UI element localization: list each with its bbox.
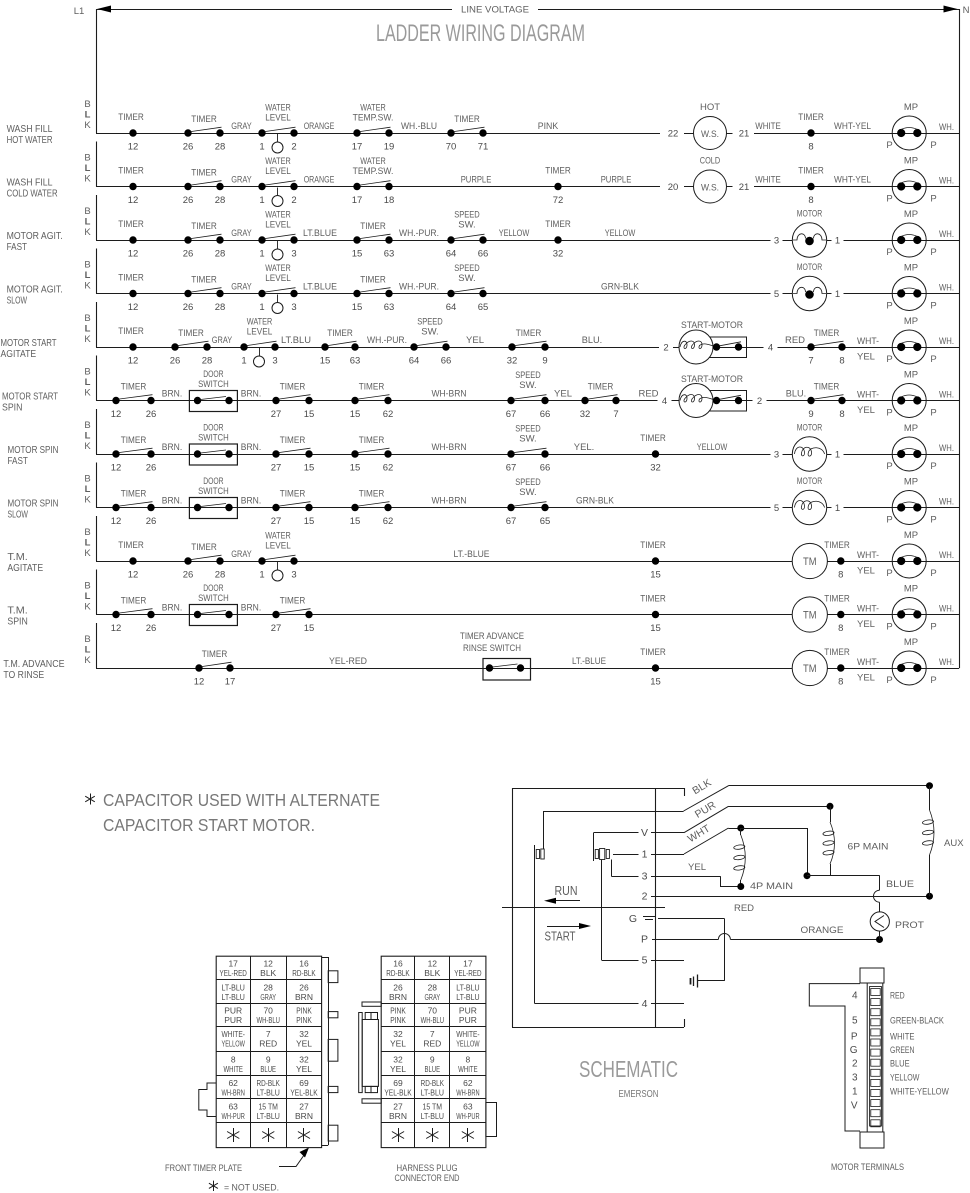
svg-text:W.S.: W.S. bbox=[701, 129, 719, 140]
svg-text:SWITCH: SWITCH bbox=[198, 486, 229, 497]
svg-text:AGITATE: AGITATE bbox=[7, 562, 43, 574]
svg-text:9: 9 bbox=[808, 409, 813, 420]
svg-text:4: 4 bbox=[662, 396, 667, 407]
svg-text:15: 15 bbox=[352, 302, 363, 313]
svg-text:WH-BRN: WH-BRN bbox=[456, 1087, 479, 1097]
svg-text:P: P bbox=[886, 622, 892, 633]
svg-text:63: 63 bbox=[384, 302, 395, 313]
svg-text:LT-BLU: LT-BLU bbox=[257, 1111, 280, 1121]
svg-text:V: V bbox=[641, 827, 648, 839]
svg-text:K: K bbox=[84, 388, 91, 399]
svg-text:G: G bbox=[850, 1045, 858, 1056]
svg-text:TIMER: TIMER bbox=[327, 328, 353, 339]
svg-text:TIMER: TIMER bbox=[545, 166, 571, 177]
svg-text:28: 28 bbox=[215, 195, 226, 206]
svg-text:LEVEL: LEVEL bbox=[247, 327, 273, 338]
svg-text:LT.BLU: LT.BLU bbox=[281, 335, 311, 346]
svg-text:27: 27 bbox=[271, 409, 282, 420]
svg-text:TIMER: TIMER bbox=[814, 382, 840, 393]
svg-text:19: 19 bbox=[384, 142, 395, 153]
svg-text:K: K bbox=[84, 227, 91, 238]
svg-text:12: 12 bbox=[128, 356, 139, 367]
svg-text:YELLOW: YELLOW bbox=[222, 1039, 245, 1049]
svg-text:B: B bbox=[84, 474, 90, 485]
svg-text:1: 1 bbox=[642, 849, 648, 861]
svg-text:TIMER: TIMER bbox=[118, 273, 144, 284]
svg-text:L: L bbox=[85, 377, 91, 388]
svg-text:1: 1 bbox=[835, 289, 840, 300]
svg-text:22: 22 bbox=[668, 129, 679, 140]
svg-text:WH.: WH. bbox=[939, 229, 954, 240]
svg-text:YELLOW: YELLOW bbox=[890, 1073, 919, 1084]
svg-text:17: 17 bbox=[352, 142, 363, 153]
svg-text:WHITE: WHITE bbox=[755, 121, 781, 132]
svg-text:8: 8 bbox=[839, 356, 844, 367]
svg-text:MP: MP bbox=[904, 102, 918, 113]
svg-text:WH.: WH. bbox=[939, 657, 954, 668]
svg-text:12: 12 bbox=[428, 959, 438, 969]
svg-text:3: 3 bbox=[774, 236, 779, 247]
svg-text:15: 15 bbox=[650, 623, 661, 634]
svg-text:TIMER: TIMER bbox=[121, 382, 147, 393]
svg-text:9: 9 bbox=[430, 1054, 435, 1064]
svg-text:WH-BRN: WH-BRN bbox=[222, 1087, 245, 1097]
svg-text:70: 70 bbox=[263, 1006, 273, 1016]
svg-text:WHT-: WHT- bbox=[857, 604, 879, 615]
svg-text:RED: RED bbox=[423, 1039, 441, 1049]
svg-text:PUR: PUR bbox=[459, 1006, 477, 1016]
svg-text:12: 12 bbox=[111, 623, 122, 634]
svg-text:YEL-RED: YEL-RED bbox=[220, 968, 247, 978]
svg-text:TIMER: TIMER bbox=[824, 540, 850, 551]
svg-text:L: L bbox=[85, 324, 91, 335]
svg-text:B: B bbox=[84, 153, 90, 164]
svg-text:26: 26 bbox=[170, 356, 181, 367]
svg-text:8: 8 bbox=[466, 1054, 471, 1064]
svg-text:SW.: SW. bbox=[458, 220, 475, 231]
svg-text:TIMER: TIMER bbox=[191, 168, 217, 179]
svg-text:K: K bbox=[84, 602, 91, 613]
svg-text:TEMP.SW.: TEMP.SW. bbox=[353, 166, 394, 177]
svg-text:L: L bbox=[85, 431, 91, 442]
svg-text:PINK: PINK bbox=[390, 1006, 406, 1016]
svg-text:TIMER: TIMER bbox=[121, 435, 147, 446]
svg-text:WH.: WH. bbox=[939, 122, 954, 133]
svg-text:BLUE: BLUE bbox=[886, 879, 914, 890]
svg-text:15: 15 bbox=[304, 463, 315, 474]
svg-text:WHT-YEL: WHT-YEL bbox=[834, 121, 871, 132]
svg-text:FAST: FAST bbox=[8, 455, 29, 467]
svg-text:SW.: SW. bbox=[421, 327, 438, 338]
svg-text:28: 28 bbox=[215, 302, 226, 313]
svg-text:2: 2 bbox=[291, 195, 296, 206]
svg-text:P: P bbox=[930, 194, 936, 205]
svg-text:7: 7 bbox=[613, 409, 618, 420]
svg-text:BRN: BRN bbox=[295, 992, 313, 1002]
svg-text:LINE VOLTAGE: LINE VOLTAGE bbox=[461, 5, 529, 16]
svg-text:TIMER: TIMER bbox=[118, 112, 144, 123]
svg-text:P: P bbox=[930, 354, 936, 365]
svg-text:62: 62 bbox=[383, 409, 394, 420]
svg-text:2: 2 bbox=[642, 891, 648, 903]
svg-text:P: P bbox=[930, 461, 936, 472]
svg-text:K: K bbox=[84, 281, 91, 292]
svg-text:K: K bbox=[84, 655, 91, 666]
svg-text:LT.-BLUE: LT.-BLUE bbox=[572, 656, 606, 667]
svg-text:EMERSON: EMERSON bbox=[619, 1088, 659, 1100]
svg-text:YEL: YEL bbox=[857, 619, 875, 630]
svg-text:WH.-PUR.: WH.-PUR. bbox=[399, 282, 439, 293]
svg-text:WHITE: WHITE bbox=[223, 1064, 243, 1074]
svg-text:P: P bbox=[930, 568, 936, 579]
svg-text:MP: MP bbox=[904, 156, 918, 167]
svg-text:32: 32 bbox=[553, 249, 564, 260]
svg-text:P: P bbox=[886, 140, 892, 151]
svg-text:P: P bbox=[930, 408, 936, 419]
svg-text:MP: MP bbox=[904, 263, 918, 274]
svg-text:LT-BLU: LT-BLU bbox=[456, 992, 479, 1002]
svg-text:TIMER: TIMER bbox=[640, 594, 666, 605]
svg-text:15: 15 bbox=[650, 677, 661, 688]
svg-text:YEL.: YEL. bbox=[574, 442, 594, 453]
svg-text:LEVEL: LEVEL bbox=[265, 220, 291, 231]
svg-text:15: 15 bbox=[350, 516, 361, 527]
svg-text:WHITE: WHITE bbox=[890, 1032, 915, 1043]
svg-text:TIMER: TIMER bbox=[280, 489, 306, 500]
svg-text:BRN: BRN bbox=[295, 1111, 313, 1121]
svg-text:5: 5 bbox=[852, 1016, 858, 1027]
svg-text:26: 26 bbox=[183, 142, 194, 153]
svg-text:26: 26 bbox=[146, 409, 157, 420]
svg-text:WHITE: WHITE bbox=[458, 1064, 478, 1074]
svg-text:63: 63 bbox=[228, 1101, 238, 1111]
svg-text:17: 17 bbox=[228, 959, 238, 969]
svg-text:MP: MP bbox=[904, 584, 918, 595]
svg-text:B: B bbox=[84, 634, 90, 645]
svg-text:YEL-BLK: YEL-BLK bbox=[290, 1087, 318, 1097]
svg-text:3: 3 bbox=[774, 450, 779, 461]
svg-text:BLU.: BLU. bbox=[582, 335, 602, 346]
svg-text:TIMER: TIMER bbox=[191, 221, 217, 232]
svg-text:71: 71 bbox=[478, 142, 489, 153]
svg-text:3: 3 bbox=[291, 302, 296, 313]
svg-text:15: 15 bbox=[350, 463, 361, 474]
svg-text:BRN.: BRN. bbox=[241, 442, 261, 453]
svg-text:TIMER: TIMER bbox=[191, 542, 217, 553]
svg-text:LADDER WIRING DIAGRAM: LADDER WIRING DIAGRAM bbox=[376, 20, 585, 47]
svg-text:ORANGE: ORANGE bbox=[304, 175, 335, 186]
svg-text:GREEN: GREEN bbox=[890, 1045, 915, 1056]
svg-text:MOTOR: MOTOR bbox=[797, 476, 823, 487]
svg-text:COLD: COLD bbox=[700, 156, 720, 167]
svg-text:RED: RED bbox=[785, 335, 805, 346]
svg-text:WHT-: WHT- bbox=[857, 390, 879, 401]
svg-text:MOTOR TERMINALS: MOTOR TERMINALS bbox=[831, 1162, 904, 1173]
svg-text:BLUE: BLUE bbox=[425, 1064, 441, 1074]
svg-text:12: 12 bbox=[128, 195, 139, 206]
svg-text:TIMER: TIMER bbox=[798, 112, 824, 123]
svg-text:SW.: SW. bbox=[519, 380, 536, 391]
svg-text:15: 15 bbox=[352, 249, 363, 260]
svg-text:2: 2 bbox=[663, 343, 668, 354]
svg-text:BLK: BLK bbox=[424, 968, 440, 978]
svg-text:27: 27 bbox=[271, 516, 282, 527]
svg-text:4: 4 bbox=[852, 991, 858, 1002]
svg-text:WHITE-: WHITE- bbox=[456, 1029, 480, 1039]
svg-text:L: L bbox=[85, 538, 91, 549]
svg-text:TIMER: TIMER bbox=[359, 489, 385, 500]
svg-text:RED: RED bbox=[638, 389, 658, 400]
svg-text:AGITATE: AGITATE bbox=[1, 348, 37, 360]
svg-text:MP: MP bbox=[904, 637, 918, 648]
svg-text:1: 1 bbox=[259, 142, 264, 153]
svg-text:WH.: WH. bbox=[939, 176, 954, 187]
svg-text:P: P bbox=[930, 675, 936, 686]
svg-text:YELLOW: YELLOW bbox=[499, 228, 530, 239]
svg-text:YELLOW: YELLOW bbox=[605, 228, 636, 239]
svg-text:26: 26 bbox=[183, 570, 194, 581]
svg-text:5: 5 bbox=[774, 503, 779, 514]
svg-text:BLUE: BLUE bbox=[260, 1064, 276, 1074]
svg-text:TM: TM bbox=[803, 609, 817, 621]
svg-text:MP: MP bbox=[904, 209, 918, 220]
svg-text:LT-BLU: LT-BLU bbox=[421, 1087, 444, 1097]
svg-text:LT-BLU: LT-BLU bbox=[222, 992, 245, 1002]
svg-text:TIMER: TIMER bbox=[280, 596, 306, 607]
svg-text:69: 69 bbox=[393, 1078, 403, 1088]
svg-text:GRAY: GRAY bbox=[212, 335, 233, 346]
svg-text:P: P bbox=[886, 408, 892, 419]
svg-text:MP: MP bbox=[904, 316, 918, 327]
svg-text:BRN.: BRN. bbox=[162, 389, 182, 400]
svg-text:SLOW: SLOW bbox=[7, 295, 27, 307]
svg-text:TIMER: TIMER bbox=[545, 219, 571, 230]
svg-text:3: 3 bbox=[642, 871, 648, 883]
svg-text:HOT WATER: HOT WATER bbox=[7, 134, 53, 146]
svg-text:SW.: SW. bbox=[519, 487, 536, 498]
svg-text:RD-BLK: RD-BLK bbox=[386, 968, 410, 978]
svg-text:TIMER: TIMER bbox=[824, 594, 850, 605]
svg-text:PUR: PUR bbox=[224, 1006, 242, 1016]
svg-text:P: P bbox=[886, 194, 892, 205]
svg-text:WHT-: WHT- bbox=[857, 657, 879, 668]
svg-text:15 TM: 15 TM bbox=[258, 1101, 278, 1111]
svg-text:COLD WATER: COLD WATER bbox=[7, 188, 58, 200]
svg-text:MP: MP bbox=[904, 370, 918, 381]
svg-text:TIMER: TIMER bbox=[824, 647, 850, 658]
svg-text:TIMER: TIMER bbox=[118, 219, 144, 230]
svg-text:BRN.: BRN. bbox=[162, 603, 182, 614]
svg-text:LT-BLU: LT-BLU bbox=[456, 982, 479, 992]
svg-text:63: 63 bbox=[463, 1101, 473, 1111]
svg-text:2: 2 bbox=[852, 1059, 858, 1070]
svg-text:TIMER: TIMER bbox=[360, 275, 386, 286]
svg-text:WHT-YEL: WHT-YEL bbox=[834, 175, 871, 186]
svg-text:65: 65 bbox=[540, 516, 551, 527]
svg-text:32: 32 bbox=[393, 1054, 403, 1064]
svg-text:PINK: PINK bbox=[390, 1015, 406, 1025]
svg-text:TIMER: TIMER bbox=[588, 382, 614, 393]
svg-text:START-MOTOR: START-MOTOR bbox=[681, 320, 743, 331]
svg-text:8: 8 bbox=[839, 409, 844, 420]
svg-text:TM: TM bbox=[803, 556, 817, 568]
svg-text:TIMER: TIMER bbox=[640, 647, 666, 658]
svg-text:P: P bbox=[886, 515, 892, 526]
svg-text:WH.-BLU: WH.-BLU bbox=[401, 121, 437, 132]
svg-text:TIMER: TIMER bbox=[118, 540, 144, 551]
svg-text:1: 1 bbox=[835, 503, 840, 514]
svg-text:64: 64 bbox=[409, 356, 420, 367]
svg-text:TO RINSE: TO RINSE bbox=[3, 669, 44, 681]
svg-text:YEL: YEL bbox=[857, 566, 875, 577]
svg-text:LT.BLUE: LT.BLUE bbox=[303, 228, 337, 239]
svg-text:66: 66 bbox=[540, 409, 551, 420]
svg-text:32: 32 bbox=[299, 1029, 309, 1039]
svg-text:L: L bbox=[85, 163, 91, 174]
svg-text:P: P bbox=[930, 247, 936, 258]
svg-text:17: 17 bbox=[352, 195, 363, 206]
svg-text:WH-BRN: WH-BRN bbox=[432, 442, 467, 453]
svg-text:4: 4 bbox=[642, 998, 648, 1010]
svg-text:TIMER: TIMER bbox=[280, 382, 306, 393]
svg-text:1: 1 bbox=[852, 1087, 858, 1098]
svg-text:26: 26 bbox=[299, 982, 309, 992]
svg-text:L: L bbox=[85, 645, 91, 656]
svg-text:63: 63 bbox=[350, 356, 361, 367]
svg-text:27: 27 bbox=[299, 1101, 309, 1111]
svg-text:CAPACITOR USED WITH ALTERNATE: CAPACITOR USED WITH ALTERNATE bbox=[103, 790, 380, 810]
svg-text:1: 1 bbox=[259, 249, 264, 260]
svg-text:WH.: WH. bbox=[939, 497, 954, 508]
svg-text:L: L bbox=[85, 591, 91, 602]
svg-text:SCHEMATIC: SCHEMATIC bbox=[579, 1056, 678, 1082]
svg-text:YEL: YEL bbox=[554, 389, 572, 400]
svg-text:K: K bbox=[84, 548, 91, 559]
svg-text:P: P bbox=[930, 301, 936, 312]
svg-text:15: 15 bbox=[650, 570, 661, 581]
svg-text:CONNECTOR END: CONNECTOR END bbox=[395, 1173, 460, 1184]
svg-text:69: 69 bbox=[299, 1078, 309, 1088]
svg-text:TIMER: TIMER bbox=[359, 435, 385, 446]
svg-text:WHITE: WHITE bbox=[755, 175, 781, 186]
svg-text:TIMER: TIMER bbox=[360, 221, 386, 232]
svg-text:PUR: PUR bbox=[224, 1015, 242, 1025]
svg-text:26: 26 bbox=[146, 463, 157, 474]
svg-text:26: 26 bbox=[183, 195, 194, 206]
svg-text:LEVEL: LEVEL bbox=[265, 113, 291, 124]
svg-text:RINSE SWITCH: RINSE SWITCH bbox=[463, 643, 521, 654]
svg-text:HOT: HOT bbox=[700, 102, 720, 113]
svg-text:28: 28 bbox=[263, 982, 273, 992]
svg-text:TIMER: TIMER bbox=[516, 328, 542, 339]
svg-text:32: 32 bbox=[580, 409, 591, 420]
svg-text:12: 12 bbox=[263, 959, 273, 969]
svg-text:70: 70 bbox=[446, 142, 457, 153]
svg-text:W.S.: W.S. bbox=[701, 183, 719, 194]
svg-text:15: 15 bbox=[350, 409, 361, 420]
svg-text:WH-BLU: WH-BLU bbox=[421, 1015, 444, 1025]
svg-text:WH.: WH. bbox=[939, 550, 954, 561]
svg-text:L1: L1 bbox=[74, 6, 85, 17]
svg-text:PROT: PROT bbox=[895, 920, 924, 931]
svg-text:P: P bbox=[886, 461, 892, 472]
svg-text:L: L bbox=[85, 484, 91, 495]
svg-text:CAPACITOR START MOTOR.: CAPACITOR START MOTOR. bbox=[103, 815, 315, 835]
svg-text:B: B bbox=[84, 260, 90, 271]
svg-text:B: B bbox=[84, 206, 90, 217]
svg-text:12: 12 bbox=[111, 516, 122, 527]
svg-text:BRN.: BRN. bbox=[162, 442, 182, 453]
svg-text:SWITCH: SWITCH bbox=[198, 593, 229, 604]
svg-text:WHT-: WHT- bbox=[857, 336, 879, 347]
svg-text:GRN-BLK: GRN-BLK bbox=[576, 496, 615, 507]
svg-text:START-MOTOR: START-MOTOR bbox=[681, 374, 743, 385]
svg-text:FAST: FAST bbox=[7, 241, 28, 253]
svg-text:YEL-RED: YEL-RED bbox=[454, 968, 481, 978]
svg-text:3: 3 bbox=[291, 249, 296, 260]
svg-text:WH.: WH. bbox=[939, 390, 954, 401]
svg-text:LT.-BLUE: LT.-BLUE bbox=[454, 549, 490, 560]
svg-text:LEVEL: LEVEL bbox=[265, 541, 291, 552]
svg-text:7: 7 bbox=[430, 1029, 435, 1039]
svg-text:28: 28 bbox=[215, 249, 226, 260]
svg-text:12: 12 bbox=[128, 302, 139, 313]
svg-text:PURPLE: PURPLE bbox=[601, 175, 632, 186]
svg-text:PINK: PINK bbox=[296, 1006, 312, 1016]
svg-text:LEVEL: LEVEL bbox=[265, 273, 291, 284]
svg-text:YEL: YEL bbox=[390, 1064, 406, 1074]
svg-text:WHITE-: WHITE- bbox=[222, 1029, 246, 1039]
svg-text:B: B bbox=[84, 581, 90, 592]
svg-text:9: 9 bbox=[266, 1054, 271, 1064]
svg-text:21: 21 bbox=[739, 182, 750, 193]
svg-text:MP: MP bbox=[904, 530, 918, 541]
svg-text:28: 28 bbox=[215, 570, 226, 581]
svg-text:8: 8 bbox=[838, 570, 843, 581]
svg-text:BRN.: BRN. bbox=[241, 389, 261, 400]
svg-text:3: 3 bbox=[852, 1073, 858, 1084]
svg-text:32: 32 bbox=[507, 356, 518, 367]
svg-text:1: 1 bbox=[241, 356, 246, 367]
svg-text:P: P bbox=[886, 301, 892, 312]
svg-text:LT-BLU: LT-BLU bbox=[421, 1111, 444, 1121]
svg-text:12: 12 bbox=[111, 409, 122, 420]
svg-text:YEL: YEL bbox=[466, 335, 484, 346]
svg-text:WH-PUR: WH-PUR bbox=[456, 1111, 479, 1121]
svg-text:BLU.: BLU. bbox=[786, 389, 806, 400]
svg-text:P: P bbox=[886, 247, 892, 258]
svg-text:YELLOW: YELLOW bbox=[456, 1039, 479, 1049]
svg-text:TIMER: TIMER bbox=[640, 540, 666, 551]
svg-text:RED: RED bbox=[259, 1039, 277, 1049]
svg-text:12: 12 bbox=[194, 677, 205, 688]
svg-text:17: 17 bbox=[225, 677, 236, 688]
svg-text:MP: MP bbox=[904, 477, 918, 488]
svg-text:WH-BLU: WH-BLU bbox=[257, 1015, 280, 1025]
svg-text:RD-BLK: RD-BLK bbox=[421, 1078, 445, 1088]
svg-text:B: B bbox=[84, 527, 90, 538]
svg-text:L: L bbox=[85, 217, 91, 228]
svg-text:16: 16 bbox=[299, 959, 309, 969]
svg-text:K: K bbox=[84, 495, 91, 506]
svg-text:70: 70 bbox=[428, 1006, 438, 1016]
svg-text:SW.: SW. bbox=[458, 273, 475, 284]
svg-text:TIMER: TIMER bbox=[640, 433, 666, 444]
svg-text:K: K bbox=[84, 174, 91, 185]
svg-text:3: 3 bbox=[272, 356, 277, 367]
svg-text:66: 66 bbox=[540, 463, 551, 474]
svg-text:ORANGE: ORANGE bbox=[801, 925, 844, 936]
